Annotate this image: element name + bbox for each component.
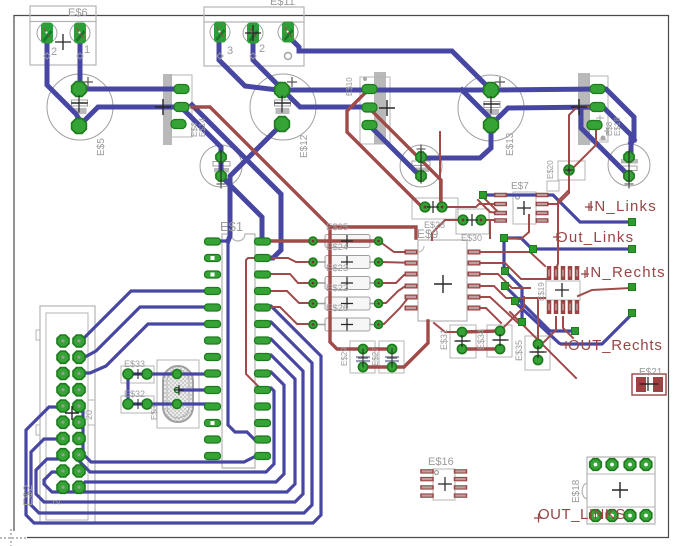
- capacitor E$34 outline: [487, 325, 512, 357]
- wire red E$20 down long vertical: [556, 175, 569, 268]
- via A: [480, 192, 487, 199]
- wire blue nest 1: [26, 306, 321, 523]
- origin cross crystal: [174, 385, 184, 395]
- origin cross E$9: [434, 275, 452, 293]
- svg-text:E$20: E$20: [546, 160, 555, 179]
- wire red fan r5: [262, 307, 309, 324]
- wire blue E$2 column stub: [81, 410, 84, 450]
- wire blue E$5 minus to E$14-2: [79, 107, 181, 126]
- pads E$19 bottom: [547, 300, 580, 314]
- svg-text:E$13: E$13: [505, 132, 516, 156]
- origin cross E$5: [83, 77, 93, 87]
- wire red E$9 right fan 3: [469, 274, 530, 288]
- pads E$27: [387, 344, 396, 371]
- IC E$1 outline: [222, 234, 255, 468]
- svg-text:E$26: E$26: [326, 303, 348, 314]
- wire blue second diagonal to E$1 pin2: [192, 105, 281, 258]
- wire red loop top horizontal: [330, 227, 416, 238]
- wire red E$28 vertical feed: [439, 132, 441, 200]
- origin cross E$32a: [133, 369, 143, 379]
- resistor E$23 outline: [313, 277, 378, 290]
- capacitor E$32 outline: [121, 396, 154, 413]
- via C: [530, 246, 537, 253]
- origin cross E$11: [245, 25, 261, 41]
- via Out_Links pad: [629, 246, 636, 253]
- svg-text:E$10: E$10: [345, 77, 354, 96]
- svg-text:E$21: E$21: [639, 367, 663, 378]
- wire red E$9 right fan 5: [469, 297, 522, 323]
- wire blue E$32 to crystal: [131, 402, 174, 405]
- wire blue E$1 fan 2: [79, 307, 212, 357]
- net label IN_Links: [585, 198, 657, 215]
- origin cross E$20: [565, 166, 573, 174]
- wire red E$35 crossing diagonal: [510, 312, 576, 378]
- wire blue inside E$1 to pin: [228, 241, 262, 440]
- origin cross E$33: [417, 145, 426, 154]
- wire blue via chain down: [502, 241, 505, 271]
- capacitor E$12 outline: [250, 74, 316, 140]
- origin cross E$8: [571, 99, 587, 115]
- wire blue nest 5: [79, 372, 284, 488]
- wire red E$14-2 long diagonal loop: [192, 107, 330, 227]
- capacitor E$29 outline: [350, 341, 375, 373]
- capacitor E$31 outline: [450, 325, 476, 358]
- wire red resistor to E$9 5: [379, 297, 416, 324]
- svg-text:E$2: E$2: [21, 484, 35, 506]
- wire blue Out_Links net: [504, 238, 630, 249]
- wire blue nest 7 inner: [83, 450, 262, 462]
- wire blue E$11-3 to E$12 plus: [219, 36, 282, 90]
- origin cross E$2: [65, 406, 79, 420]
- pads resistors: [309, 237, 383, 329]
- wire blue nest 4: [44, 355, 295, 492]
- wire red resistor to E$9 1: [379, 241, 416, 252]
- pads E$10: [362, 85, 377, 130]
- pads E$18: [590, 459, 652, 522]
- wire blue E$13 minus to E$8-2: [491, 107, 597, 125]
- svg-text:E$35: E$35: [514, 340, 524, 361]
- svg-text:E$22: E$22: [326, 283, 348, 294]
- capacitor E$36 outline: [608, 144, 650, 186]
- svg-text:20: 20: [84, 410, 94, 420]
- resistor E$22 outline: [313, 297, 378, 310]
- wire red E$31 left entry: [434, 323, 462, 332]
- svg-text:E$14: E$14: [198, 118, 207, 137]
- wire red E$9 right fan 2: [469, 263, 549, 279]
- svg-text:OUT_LINKS: OUT_LINKS: [538, 506, 626, 523]
- via IN_Rechts pad: [629, 284, 636, 291]
- wire blue nest 2: [31, 322, 312, 513]
- pads E$35: [533, 339, 542, 364]
- via D: [502, 268, 509, 275]
- resistor E$25 outline: [313, 235, 378, 248]
- origin cross E$6: [55, 34, 71, 50]
- svg-text:E$31: E$31: [439, 329, 449, 350]
- svg-text:E$16: E$16: [428, 456, 454, 468]
- svg-text:E$34: E$34: [476, 329, 486, 350]
- pads E$19 top: [547, 266, 580, 280]
- origin cross E$14: [155, 99, 171, 115]
- wire blue branch to E$13 minus: [462, 90, 491, 122]
- resistor E$26 outline: [313, 318, 378, 331]
- origin cross E$10: [379, 100, 395, 116]
- origin cross E$18: [612, 482, 628, 498]
- origin cross E$16: [438, 477, 452, 491]
- svg-text:1: 1: [84, 44, 90, 56]
- pads E$9 right: [468, 250, 481, 311]
- wire red E$7 pad2 diagonal up: [558, 180, 569, 204]
- svg-text:E$27: E$27: [371, 347, 380, 366]
- pads E$28: [420, 202, 447, 212]
- crystal E$3Q outline: [157, 360, 199, 428]
- svg-text:E$24: E$24: [326, 242, 348, 253]
- via G: [519, 319, 526, 326]
- wire red E$8-3 down: [572, 126, 596, 169]
- wire blue E$33a to crystal: [131, 372, 174, 375]
- wire red loop vertical: [330, 227, 392, 349]
- wire red resistor to E$9 4: [379, 286, 416, 303]
- capacitor E$35 outline: [525, 336, 550, 370]
- svg-text:Out_Links: Out_Links: [556, 229, 634, 246]
- net label IN_Rechts: [581, 264, 666, 281]
- pads E$20: [564, 165, 574, 175]
- svg-text:E$19: E$19: [537, 282, 546, 301]
- wire blue nest 3: [36, 339, 303, 502]
- connector E$14 outline: [163, 74, 192, 145]
- capacitor E$33 outline: [400, 145, 442, 187]
- pads crystal: [173, 370, 182, 409]
- wire red IN_Rechts net: [578, 288, 630, 296]
- svg-text:E$32: E$32: [124, 389, 145, 399]
- wire red E$9 right fan 4: [469, 286, 545, 298]
- pads E$7: [494, 193, 549, 223]
- IC E$7 outline: [513, 192, 536, 224]
- svg-text:E$25: E$25: [326, 222, 348, 233]
- svg-text:IN_Links: IN_Links: [589, 198, 657, 215]
- wire red E$34 up diagonal: [500, 297, 524, 331]
- wire red E$9 pads to resistors: [265, 239, 379, 242]
- svg-text:OUT_Rechts: OUT_Rechts: [568, 337, 663, 354]
- via E: [502, 283, 509, 290]
- svg-text:E$29: E$29: [340, 347, 349, 366]
- wire red E$30-2 to E$7-4: [481, 219, 500, 221]
- origin cross E$36: [625, 180, 634, 189]
- capacitor E$30 outline: [456, 209, 489, 234]
- connector E$8 outline: [578, 73, 610, 145]
- resistor E$21 outline: [632, 374, 666, 395]
- wire blue E$12 minus down-left: [228, 124, 282, 241]
- wire red E$8-2 to E$20: [569, 107, 597, 166]
- wire red E$7 right pad2 to vertical: [542, 203, 558, 205]
- wire blue crystal to E$1 pin: [180, 372, 208, 375]
- pads E$1 right column: [255, 238, 271, 460]
- IC E$16 outline: [433, 469, 455, 500]
- wire red diag to E$7-3b: [478, 200, 498, 213]
- IC E$19 outline: [546, 281, 580, 300]
- origin cross E$30: [466, 214, 478, 226]
- wire red E$29 E$27 bottom link: [363, 365, 392, 368]
- pads E$14: [171, 85, 189, 129]
- wire red fan r3: [262, 274, 309, 283]
- svg-text:E$33: E$33: [124, 359, 145, 369]
- resistor E$24 outline: [313, 256, 378, 269]
- wire blue E$1 fan 1: [79, 291, 212, 341]
- wire blue E$8-2 to E$36 plus: [600, 107, 631, 157]
- wire blue E$11-1 top bus: [288, 36, 488, 87]
- wire blue E$33a pair link: [126, 377, 129, 401]
- origin cross E$27: [387, 353, 397, 363]
- pads E$9 left: [405, 250, 418, 311]
- pads E$6: [37, 23, 90, 60]
- svg-text:E$7: E$7: [511, 181, 529, 192]
- wire red E$35 feed vertical: [537, 300, 539, 344]
- wire red E$31 top link: [462, 331, 500, 332]
- pads E$3: [216, 152, 226, 181]
- wire blue E$6-2 to E$5 minus: [47, 37, 79, 119]
- wire red E$30-1 feed: [432, 220, 463, 240]
- origin cross E$34: [494, 334, 506, 346]
- wire blue E$10-3 to E$33 minus: [369, 125, 420, 176]
- origin cross E$32: [133, 399, 143, 409]
- svg-text:E$3: E$3: [150, 405, 159, 420]
- capacitor E$28 outline: [412, 198, 458, 219]
- origin cross E$19: [555, 283, 569, 297]
- via B: [501, 235, 508, 242]
- via OUT_Rechts pad: [629, 310, 636, 317]
- IC socket E$18 outline: [582, 457, 655, 524]
- via IN_Links pad: [629, 219, 636, 226]
- wire blue bundle b3 OUT_Rechts: [515, 302, 632, 344]
- origin cross E$21: [641, 377, 655, 391]
- wire red E$1 internal vertical: [246, 258, 262, 390]
- connector E$2 outline: [36, 306, 95, 524]
- wire blue E$36 minus up-left: [581, 111, 626, 173]
- origin cross resistors: [341, 235, 353, 331]
- wire red resistor to E$9 2: [379, 262, 416, 263]
- wire red E$7 center down to via: [508, 215, 529, 239]
- pads E$32a: [123, 369, 152, 379]
- svg-text:IN_Rechts: IN_Rechts: [585, 264, 666, 281]
- capacitor E$27 outline: [379, 341, 404, 373]
- svg-text:2: 2: [51, 46, 57, 58]
- wire red E$19 bottom stubs: [541, 317, 556, 345]
- component E$20 outline: [547, 161, 585, 191]
- wire red fan r2: [262, 258, 309, 262]
- wire blue crystal mid to E$1: [180, 388, 208, 391]
- svg-text:E$30: E$30: [461, 233, 482, 243]
- wire blue E$11-2 to E$10-2: [253, 36, 369, 107]
- svg-text:E$23: E$23: [326, 263, 348, 274]
- pads E$32: [123, 399, 152, 409]
- svg-text:E$11: E$11: [270, 0, 295, 8]
- pads E$12: [275, 83, 290, 132]
- pads E$2 header: [57, 335, 85, 493]
- svg-text:E$5: E$5: [96, 138, 107, 156]
- connector E$11 outline: [204, 7, 304, 66]
- origin cross E$13: [495, 77, 505, 87]
- origin cross E$7: [517, 201, 531, 215]
- wire red E$10-1 to E$28-1: [347, 89, 422, 207]
- capacitor E$3 outline: [200, 145, 242, 187]
- wire blue nest 6: [79, 388, 274, 472]
- wire blue crystal to E$1 pin b: [180, 402, 208, 405]
- origin cross E$35: [532, 346, 544, 358]
- svg-text:E$18: E$18: [613, 117, 622, 136]
- capacitor E$13 outline: [458, 75, 524, 141]
- net label Out_Links: [553, 229, 634, 246]
- connector E$10 outline: [360, 72, 390, 144]
- wire blue bundle b1: [505, 286, 571, 331]
- net label OUT_Rechts: [562, 337, 663, 354]
- pads E$16: [420, 469, 467, 498]
- svg-text:E$9: E$9: [417, 227, 439, 241]
- capacitor E$5 outline: [47, 74, 113, 140]
- pads E$31: [457, 327, 466, 353]
- wire blue bundle b2: [505, 271, 522, 319]
- wire blue E$36 vertical join: [631, 140, 634, 143]
- pads E$33: [416, 152, 426, 181]
- pads E$30: [458, 215, 486, 225]
- pads E$13: [484, 83, 499, 133]
- origin cross E$28: [427, 201, 439, 213]
- capacitor E$32a outline: [121, 366, 154, 383]
- wire red via to E$7-3: [483, 197, 500, 212]
- wire blue E$5 plus to E$14-1: [79, 87, 181, 92]
- pads E$11: [210, 22, 298, 60]
- wire red diag to E$7-2: [442, 204, 500, 207]
- wire blue E$1 pin1 entry: [212, 239, 228, 242]
- svg-text:E$18: E$18: [571, 479, 582, 503]
- IC E$9 outline: [418, 240, 467, 321]
- svg-text:E$12: E$12: [299, 134, 310, 158]
- wire red E$10-2 to E$28-2: [369, 108, 441, 203]
- origin cross E$3: [217, 180, 226, 189]
- pads E$36: [624, 152, 634, 181]
- via F: [512, 298, 519, 305]
- connector E$6 outline: [30, 6, 96, 65]
- svg-text:E$6: E$6: [68, 7, 88, 19]
- wire red E$31 bottom link: [462, 347, 500, 350]
- pads E$34: [495, 326, 504, 353]
- wire red E$30 stubs: [489, 222, 491, 238]
- pads E$5: [72, 82, 87, 134]
- pads E$29: [358, 344, 367, 371]
- svg-text:3: 3: [227, 45, 233, 57]
- wire red E$27 up to E$9: [396, 321, 428, 367]
- net label OUT_LINKS: [534, 506, 626, 523]
- wire blue E$8-1 to E$36 plus: [600, 89, 634, 140]
- svg-text:E$1: E$1: [220, 219, 243, 234]
- wire blue E$13 minus down to E$33 plus: [427, 128, 491, 158]
- origin cross E$29: [358, 353, 368, 363]
- wire blue E$6-1 to E$5 plus: [79, 37, 80, 89]
- svg-text:2: 2: [52, 499, 63, 505]
- via H: [572, 328, 579, 335]
- wire red fan r4: [262, 291, 309, 303]
- wire blue E$1 fan 3: [79, 324, 212, 373]
- origin cross E$12: [287, 77, 297, 87]
- wire red E$9 right fan 1: [469, 252, 545, 266]
- wire red resistor to E$9 3: [379, 274, 416, 283]
- pads E$1 left column: [205, 238, 221, 460]
- pads E$8: [587, 85, 605, 130]
- svg-text:2: 2: [259, 43, 265, 55]
- wire red E$9 right fan 6: [469, 308, 501, 323]
- origin cross E$31: [456, 335, 468, 347]
- wire blue E$14-3 through E$3 to E$1: [184, 110, 262, 241]
- wire blue via E$7 row to IN_Links pad: [483, 195, 630, 222]
- wire blue E$12 plus to E$13 plus bus: [282, 89, 597, 90]
